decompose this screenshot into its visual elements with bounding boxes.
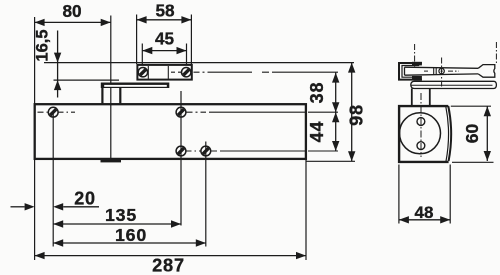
svg-text:160: 160 [115, 225, 147, 245]
dimension 160 [53, 225, 206, 247]
wire: plate inner divider right [167, 66, 169, 79]
pivot screw on arm [439, 68, 444, 73]
wire: body bottom edge extension to 98-dimension [307, 160, 356, 162]
side view arm bracket [399, 62, 422, 80]
side view neck [412, 89, 430, 106]
wire: left extension line x=35.6 [34, 17, 36, 104]
screw: body bottom-left [176, 146, 186, 156]
side view main arm bar [405, 67, 479, 75]
valve tab under body [101, 159, 122, 162]
screw: plate left screw [138, 68, 147, 77]
small circle bottom [417, 142, 425, 150]
dimension 80 [35, 1, 111, 26]
svg-text:20: 20 [74, 188, 96, 208]
dimension 58 [137, 1, 192, 65]
wire: arm pivot axis dash-dot line to 38-dimension [194, 71, 339, 73]
side view slide rail plate [411, 81, 497, 88]
svg-text:287: 287 [152, 256, 185, 275]
wire: reference line A (top fixing line, y=62.6) [44, 62, 354, 64]
svg-text:38: 38 [307, 82, 327, 104]
dimension 45 [142, 29, 186, 65]
screw: body top-right [176, 107, 186, 117]
wire: top screw row dash-dot (left stub) [38, 111, 48, 113]
side view arm end block [478, 65, 495, 78]
wire: pivot screw centerline [441, 58, 443, 89]
svg-text:58: 58 [155, 1, 175, 21]
dimension 20 [11, 188, 100, 210]
wire: extension x=205.8 (third screw column) [205, 142, 207, 247]
screw: body top-left [48, 107, 58, 117]
side view closer body [399, 106, 451, 162]
wire: bottom screw row dash-dot [187, 150, 201, 152]
closer body (front view) [35, 104, 306, 159]
wire: top screw row dash-dot to 44-dimension [187, 111, 339, 113]
svg-text:60: 60 [462, 124, 482, 144]
wire: extension x=35.6 below body [34, 159, 36, 260]
wire: extension x=181 (second screw column) [180, 91, 182, 226]
dimension 98 [347, 63, 367, 162]
svg-text:80: 80 [62, 1, 81, 21]
wire: extension x=53.2 (first screw column) [52, 112, 54, 246]
svg-text:135: 135 [105, 205, 137, 225]
dimension 38 [307, 73, 339, 113]
wire: pedestal left leg [101, 88, 103, 103]
dimension 44 [307, 112, 339, 151]
svg-text:44: 44 [307, 121, 327, 143]
node: spindle axis vertical centerline x=110.8 [110, 16, 112, 160]
small circle top [417, 118, 425, 126]
dimension 48 [399, 165, 450, 224]
big circle on side body [400, 113, 441, 154]
svg-text:16,5: 16,5 [34, 29, 52, 61]
wire: arm pivot axis dash-dot line between plate screws [171, 71, 181, 73]
wire: pedestal right leg [119, 88, 121, 103]
svg-text:48: 48 [415, 203, 434, 222]
svg-text:45: 45 [155, 29, 175, 49]
dimension 60 [451, 106, 494, 162]
dimension 135 [53, 205, 181, 228]
arm mounting plate (front view) [137, 65, 191, 80]
slide rail bar (front view) [101, 83, 170, 89]
node: bracket centerline [414, 44, 416, 67]
screw: plate right screw [182, 68, 191, 77]
screw: body bottom-right [201, 146, 211, 156]
node: side body centerline [420, 93, 422, 157]
wire: plate inner divider left [147, 66, 149, 79]
node: arm end centerline [495, 42, 497, 64]
wire: 16.5 lower reference line under mounting plate [54, 79, 120, 81]
wire: bottom screw row dash-dot to 44-dimension [211, 150, 338, 152]
dimension 16,5 [34, 29, 62, 97]
wire: extension x=306 (body right edge) [305, 160, 307, 260]
svg-text:98: 98 [347, 104, 367, 126]
dimension 287 [35, 252, 306, 275]
